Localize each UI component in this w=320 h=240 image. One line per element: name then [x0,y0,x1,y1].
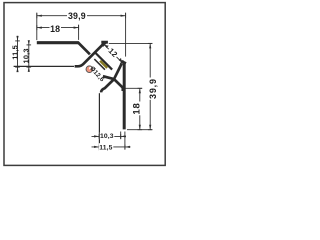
arrow 12 lower [119,58,122,62]
arrow 10,3 left bottom (outside) [28,67,30,72]
wall B SW black line [94,59,106,71]
svg-text:18: 18 [132,102,143,114]
tick 10,3 left top [27,44,32,46]
text 18 top [50,25,62,34]
tick 10,3 left bottom [27,66,32,68]
arrow 11,5 bottom left (outside) [94,146,99,148]
arrow 39,9 right bottom [149,125,151,130]
arrow 10,3 bottom right (outside) [121,135,126,137]
screw hole circle [86,66,93,73]
mitre wall P7 lower with curved foot [101,79,114,92]
svg-text:10,3: 10,3 [22,48,31,63]
dim 39,9 right: top extension line [109,42,152,44]
tick 18 top left [36,25,38,30]
arrow 10,3 bottom left (outside) [94,135,99,137]
arrow 39,9 right top [149,43,151,48]
arrow 11,5 left bottom (outside) [16,67,18,72]
wall B NE black line [94,51,113,70]
dim 10,3 bottom: right extension line [120,132,122,140]
tick 18 right top [138,87,143,89]
tick 18 right bottom [138,129,143,131]
dim 39,9 top: line [37,15,126,17]
tick 11,5 left top [15,40,20,42]
dim 12 diagonal: line [105,45,122,62]
text 10,3 bottom [100,132,115,139]
V-groove left arm [78,42,90,54]
tick 39,9 right top [148,42,153,44]
arrow 12 upper [105,45,109,48]
mitre wall P7 upper (steep from leg cap) [114,63,122,79]
dim 39,9 right: bottom extension line [127,129,152,131]
tick 12 lower [120,61,123,64]
arrow 18 top left [37,27,42,29]
dim 10,3 left: line [28,41,30,72]
svg-text:10,3: 10,3 [100,133,114,140]
arrow 39,9 top right [121,15,126,17]
dim 10,3 bottom: line [92,135,127,137]
arrow 11,5 bottom right (outside) [125,146,130,148]
vertical leg top cap [121,61,126,63]
tick 12 upper [103,43,106,46]
channel wall A with curved foot [75,43,105,67]
tick 39,9 right bottom [148,129,153,131]
dim 39,9 top: left extension line [36,13,38,40]
svg-text:11,5: 11,5 [99,145,112,152]
arrow 18 right bottom [139,125,141,130]
horizontal leg slot inner line (thin, extension for left dims) [14,65,74,67]
horizontal leg outer sheet [37,41,79,44]
mitre wall P7 shallow NW arm [103,76,115,79]
wall B olive core [99,60,108,69]
arrow 10,3 left top (outside) [28,40,30,45]
wall A top cap [101,41,108,44]
arrow 18 top right [74,27,79,29]
arrow 18 right top [139,88,141,93]
dim 18 top: line [37,27,79,29]
dim 11,5 bottom: right extension line [124,132,126,150]
dim 11,5 left: line [17,36,19,72]
screw hole highlight [89,67,92,70]
svg-text:11,5: 11,5 [10,45,19,60]
inner groove arm to vertical leg [114,79,123,91]
vertical leg slot inner line (thin, extension for bottom dims) [98,93,100,150]
dim 11,5 bottom: line [92,146,131,148]
dim 39,9 right: line [149,43,151,77]
dim 18 right: line [139,88,141,101]
text 12 white backing [107,46,120,59]
vertical leg outer sheet [123,62,126,129]
tick 39,9 top left [36,13,38,18]
text 39,9 top [67,12,87,21]
text 11,5 bottom [99,143,114,150]
svg-text:39,9: 39,9 [68,11,86,21]
border frame [4,3,165,166]
dim 18 top: right extension line [78,25,80,40]
svg-text:18: 18 [50,24,60,34]
tick 11,5 left bottom [15,66,20,68]
tick 10,3 bottom left [98,134,100,139]
arrow 11,5 left top (outside) [16,36,18,41]
dim 39,9 top: right extension line [125,13,127,57]
tick 11,5 bottom right [124,145,126,150]
tick 18 top right [78,25,80,30]
tick 39,9 top right [125,13,127,18]
tick 11,5 bottom left [98,145,100,150]
svg-text:39,9: 39,9 [148,78,158,99]
arrow 39,9 top left [37,15,42,17]
tick 10,3 bottom right [120,134,122,139]
dim 18 right: top extension line [124,87,143,89]
